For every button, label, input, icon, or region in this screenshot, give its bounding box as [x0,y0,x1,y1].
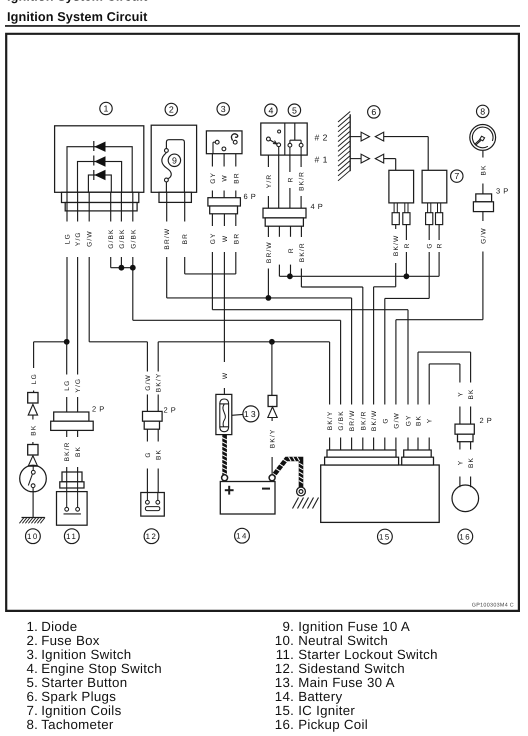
svg-text:16: 16 [459,532,471,541]
wire BR link fusebox to ignition switch [185,273,236,275]
svg-text:BR: BR [182,233,189,244]
battery box (14) [220,482,275,515]
wire R starter button to 4P [289,147,291,155]
wire GY 6P to igniter bus [211,214,213,226]
wire LG to neutral switch [33,342,35,368]
svg-text:Ignition Coils: Ignition Coils [41,703,121,718]
svg-text:BK/W: BK/W [393,235,400,256]
ignition switch SW box [206,131,242,154]
svg-text:BR/W: BR/W [349,409,356,431]
label circle 12 [144,529,159,544]
starter lockout switch (11) [57,492,88,526]
wire coil B G to igniter pin6 [385,297,429,299]
svg-text:BK: BK [480,164,487,175]
svg-text:Ignition Switch: Ignition Switch [41,647,131,662]
title rule [5,25,520,27]
wire Y pickup lower [459,442,461,450]
svg-text:Engine Stop Switch: Engine Stop Switch [41,661,162,676]
svg-text:5.: 5. [26,675,38,690]
battery negative terminal [269,475,275,481]
svg-text:# 2: # 2 [315,132,328,142]
svg-text:4 P: 4 P [311,202,324,211]
svg-text:G: G [382,417,389,423]
svg-text:Battery: Battery [298,689,342,704]
svg-text:W: W [222,235,229,242]
wire BK/R 4P down [300,226,302,237]
label circle 3 [217,103,229,115]
wire BK sidestand [157,429,159,441]
svg-text:GP100303M4 C: GP100303M4 C [472,603,514,609]
wire Y pickup loop [429,363,460,365]
svg-text:Starter Button: Starter Button [41,675,127,690]
svg-text:Spark Plugs: Spark Plugs [41,689,116,704]
svg-text:R: R [404,242,411,248]
svg-text:Ignition Fuse 10 A: Ignition Fuse 10 A [298,619,410,634]
svg-text:BR/W: BR/W [164,228,171,250]
svg-text:13.: 13. [275,675,294,690]
neutral switch (10) [20,465,47,492]
diode D1b [94,156,105,166]
wire BK neutral [32,415,34,419]
svg-text:4.: 4. [26,661,38,676]
svg-text:3 P: 3 P [496,187,509,196]
wire Y/G from diode pack pin x=77.6 [77,192,79,221]
wire GY to igniter pin [407,310,409,405]
wire BK/Y junction to connector [271,342,273,396]
svg-text:W: W [222,372,229,379]
svg-text:8: 8 [480,107,485,117]
diode triangle battery branch [268,407,277,418]
wire BK lockout [77,430,79,437]
wire engine stop second pin to 4P [278,147,280,156]
svg-text:BK: BK [468,457,475,468]
svg-text:Ignition System Circuit: Ignition System Circuit [7,10,148,24]
main fuse 30A box (13) [216,394,232,434]
svg-text:G: G [427,242,434,248]
wire W 6P to main fuse [223,214,225,226]
wire BK/W to igniter pin [373,287,375,405]
fuse box connector [159,192,191,202]
ignition coil A box [389,170,414,203]
wire BR/W from fuse box [166,192,168,221]
svg-text:6.: 6. [26,689,38,704]
junction dot BK/Y battery [269,339,275,345]
svg-text:BK/Y: BK/Y [270,429,277,449]
wire BK pickup loop [418,351,471,353]
connector 2P pickup [455,424,474,434]
wire G sidestand [146,429,148,441]
svg-text:LG: LG [64,233,71,244]
label circle 15 [378,529,393,544]
diode D1c [94,170,105,180]
wire BK pickup upper [470,352,472,382]
svg-text:BR/W: BR/W [266,241,273,263]
wire HT lead to coil B [384,136,429,138]
battery minus sign [262,488,270,490]
wire BK/W coil A [395,225,397,229]
svg-text:G/W: G/W [480,227,487,244]
wire G to igniter pin [384,298,386,404]
svg-text:12.: 12. [275,661,294,676]
svg-text:BK: BK [415,415,422,426]
label circle 8 [477,105,489,117]
ignition fuse 10A label circle 9 [168,154,180,166]
svg-text:10.: 10. [275,633,294,648]
label circle 10 [26,529,41,544]
diode D1a [94,142,105,152]
svg-text:BK: BK [75,446,82,457]
wire BK pickup lower [470,442,472,450]
svg-text:14: 14 [236,532,248,541]
wire R coil B [438,225,440,240]
wire R coil A [405,225,407,240]
svg-text:BK: BK [468,388,475,399]
ignition coil B box [422,170,447,203]
wire G/BK to igniter pin [340,320,342,404]
svg-text:G/BK: G/BK [130,228,137,248]
diode triangle neutral a [28,404,37,415]
svg-text:BR: BR [233,233,240,244]
svg-text:Tachometer: Tachometer [41,717,114,732]
label circle 2 [165,103,177,115]
wire G/BK from diode pack pin x=121.4 [120,192,122,221]
wire LG to lockout 2P [66,342,68,375]
wire BK tachometer to 3P [482,151,484,158]
node G/BK junction bar [111,267,133,269]
svg-text:14.: 14. [275,689,294,704]
battery negative cable [273,459,301,487]
wire 4P pin2 down [278,226,280,237]
tachometer gauge (8) [470,124,496,150]
connector square neutral b [28,445,38,456]
svg-text:15: 15 [379,533,391,542]
coil terminal pin x=429.2 [427,203,429,213]
diode D1a cathode dashed line [93,141,95,182]
svg-text:4: 4 [268,105,273,115]
svg-text:GY: GY [210,232,217,244]
svg-text:15.: 15. [275,703,294,718]
svg-text:R: R [287,176,294,182]
svg-text:BK/W: BK/W [371,410,378,431]
junction dot R b [404,273,410,279]
svg-text:2: 2 [169,105,174,115]
diagram frame [6,34,519,611]
junction dot R a [287,273,293,279]
svg-text:BK/Y: BK/Y [327,411,334,431]
wire BR ignition switch to 6P [235,154,237,167]
diode triangle neutral b [28,456,37,467]
engine stop switch SW box (4) and starter button (5) [261,123,307,155]
wire BK/R to igniter pin [362,287,364,405]
connector 4P [263,208,306,218]
svg-text:Y/G: Y/G [75,231,82,246]
wire bus GY [212,309,408,311]
wire bus R [279,275,439,277]
wire BK/R lockout [66,430,68,437]
svg-text:Sidestand Switch: Sidestand Switch [298,661,405,676]
svg-text:9: 9 [172,155,177,165]
battery positive terminal [222,475,228,481]
svg-text:BR: BR [233,172,240,183]
coil terminal pin x=395.7 [393,203,395,213]
svg-text:7.: 7. [26,703,38,718]
svg-text:# 1: # 1 [315,154,328,164]
spark plug #1 gap [350,158,361,160]
wire coil A BK/W to igniter pin5 [374,286,396,288]
connector small lockout [62,472,82,482]
wire LG from diode pack pin x=67.0 [66,192,68,221]
svg-text:BK/Y: BK/Y [156,373,163,393]
junction dot LG [64,339,70,345]
wire G/BK from diode pack pin x=132.8 [132,192,134,221]
wire G/W jog [89,341,147,343]
svg-text:LG: LG [31,373,38,384]
spark plugs wall (6) [349,114,351,171]
svg-text:9.: 9. [282,619,294,634]
wire W ignition switch to 6P [223,154,225,167]
svg-text:Pickup Coil: Pickup Coil [298,717,368,732]
wire Y to igniter pin [428,364,430,405]
svg-text:11.: 11. [276,647,294,662]
svg-text:Fuse Box: Fuse Box [41,633,100,648]
svg-text:R: R [437,242,444,248]
wire bus BK/Y neutral branch [34,341,67,343]
connector 6P [208,198,241,206]
svg-text:Starter Lockout Switch: Starter Lockout Switch [298,647,438,662]
wire BR/W 4P to junction [267,226,269,237]
svg-text:G/W: G/W [393,412,400,429]
svg-text:13: 13 [244,409,258,419]
connector 3P [476,194,492,202]
svg-text:IC Igniter: IC Igniter [298,703,355,718]
wire BK/Y to battery negative [271,418,273,422]
label circle 13 leader [232,413,243,416]
ground eyelet [297,487,306,496]
wire BR 6P down [235,214,237,226]
ground symbol neutral switch [22,517,45,519]
svg-text:BK/R: BK/R [299,171,306,191]
wire BR from fuse box [184,192,186,221]
svg-text:G/BK: G/BK [338,410,345,430]
svg-text:Main Fuse 30 A: Main Fuse 30 A [298,675,395,690]
sidestand switch (12) [141,493,165,517]
label circle 11 [64,529,79,544]
svg-text:BK: BK [156,449,163,460]
svg-text:3.: 3. [26,647,38,662]
diode pack D1 box [55,126,144,193]
svg-text:BK: BK [30,425,37,436]
svg-text:G/W: G/W [87,230,94,247]
wire G coil B [428,225,430,240]
svg-text:Neutral Switch: Neutral Switch [298,633,388,648]
svg-text:6: 6 [371,107,376,117]
svg-text:G/BK: G/BK [119,228,126,248]
svg-text:GY: GY [210,172,217,184]
coil terminal pin x=406.4 [404,203,406,213]
svg-text:1: 1 [104,104,109,114]
starter button actuator [294,123,296,140]
svg-text:Diode: Diode [41,619,77,634]
wire BR/W to igniter pin [351,298,353,405]
label circle 1 [100,102,112,114]
fuse box F box [151,125,196,192]
battery plus sign [225,489,234,491]
wire G/W tachometer to igniter [482,212,484,221]
wire HT lead to coil A [384,158,396,160]
svg-text:BK/R: BK/R [299,242,306,262]
wire G/BK from diode pack pin x=110.7 [110,192,112,221]
svg-text:16.: 16. [275,717,294,732]
wire G/W to igniter pin [395,320,397,405]
svg-text:7: 7 [454,171,459,181]
svg-text:11: 11 [66,532,77,541]
junction dot G/BK a [119,265,125,271]
diode pack connector [62,192,139,202]
ground symbol battery [293,498,299,509]
wire bus BK/Y [158,341,329,343]
svg-text:Y/R: Y/R [266,174,273,188]
svg-text:W: W [222,174,229,181]
label circle 4 [265,104,277,116]
battery positive cable [222,434,227,475]
connector square neutral a [28,393,38,404]
pickup coil (16) [452,485,479,512]
connector 2P sidestand [143,411,163,421]
junction dot BR/W [266,295,272,301]
svg-text:8.: 8. [26,717,38,732]
svg-text:Ignition System Circuit: Ignition System Circuit [7,0,148,4]
label circle 14 [235,528,250,543]
svg-text:12: 12 [146,532,158,541]
svg-text:2 P: 2 P [164,406,177,415]
svg-text:10: 10 [27,532,39,541]
wire G/W from diode pack pin x=89.2 [88,192,90,221]
svg-text:6 P: 6 P [244,192,257,201]
svg-text:2 P: 2 P [92,405,105,414]
svg-text:5: 5 [292,105,297,115]
wire bus G/BK [133,319,341,321]
wire bus BR/W [167,297,352,299]
svg-text:G: G [145,451,152,457]
svg-text:LG: LG [64,380,71,391]
wire R 4P down [290,226,292,237]
IC igniter right connector [404,450,432,457]
svg-text:GY: GY [405,414,412,426]
svg-text:1.: 1. [26,619,38,634]
svg-text:R: R [288,247,295,253]
junction dot G/BK b [130,265,136,271]
connector 2P lockout [54,412,89,421]
label circle 16 [458,529,473,544]
label circle 6 [368,106,380,118]
wire bus BK/R to igniter pin4 [301,286,362,288]
coil terminal pin x=439.1 [437,203,439,213]
svg-text:BK/R: BK/R [360,410,367,430]
wire GY ignition switch to 6P [211,154,213,167]
svg-text:Y: Y [457,391,464,397]
svg-text:Y: Y [457,460,464,466]
wire Y/G to lockout 2P [77,257,79,375]
wire BK/Y to igniter pin [329,342,331,405]
svg-text:G/BK: G/BK [108,228,115,248]
wire neutral switch to ground [32,488,34,518]
wire BK/R starter button to 4P [300,147,302,155]
svg-text:2.: 2. [26,633,38,648]
label circle 5 [288,104,300,116]
svg-text:BK/R: BK/R [64,441,71,461]
wire Y pickup upper [459,364,461,383]
svg-text:Y/G: Y/G [75,378,82,393]
spark plug #2 gap [350,136,361,138]
label circle 13 [243,406,259,422]
svg-text:3: 3 [221,104,226,114]
svg-text:Y: Y [427,418,434,424]
wire BK to igniter pin [417,352,419,404]
IC igniter left connector [327,450,396,457]
connector square battery branch [268,395,277,406]
IC igniter body (15) [321,465,440,522]
svg-text:2 P: 2 P [480,416,493,425]
wire Y/R engine stop to 4P [267,155,269,167]
label circle 7 [451,170,463,182]
svg-text:G/W: G/W [145,374,152,391]
